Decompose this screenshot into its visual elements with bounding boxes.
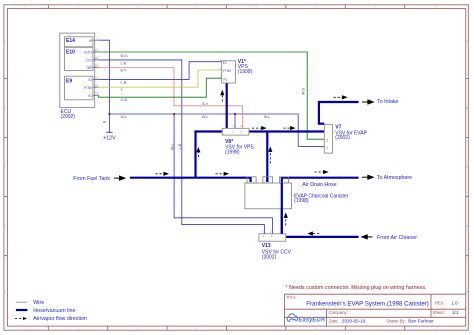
svg-text:11: 11 — [95, 76, 98, 80]
svg-text:W-G: W-G — [302, 88, 306, 96]
svg-text:TITLE:: TITLE: — [286, 296, 297, 300]
svg-text:(2002): (2002) — [262, 255, 277, 261]
svg-text:E9: E9 — [66, 79, 72, 85]
svg-text:Sheet:: Sheet: — [433, 310, 445, 315]
svg-text:1: 1 — [326, 146, 328, 150]
svg-text:W-L: W-L — [121, 115, 128, 119]
svg-text:1/1: 1/1 — [452, 310, 459, 315]
svg-text:(1998): (1998) — [225, 150, 240, 156]
svg-text:PTNK: PTNK — [223, 69, 232, 73]
svg-text:V7: V7 — [335, 124, 341, 130]
svg-text:E: E — [466, 290, 468, 294]
svg-text:2: 2 — [326, 139, 328, 143]
svg-text:+B: +B — [88, 39, 92, 43]
svg-text:Frankenstein's EVAP System (19: Frankenstein's EVAP System (1998 Caniste… — [306, 300, 429, 307]
svg-text:B-Y: B-Y — [121, 69, 128, 73]
svg-text:Hose/vacuum line: Hose/vacuum line — [33, 308, 75, 314]
svg-text:Drawn By:: Drawn By: — [387, 319, 406, 324]
svg-text:A: A — [466, 39, 468, 43]
svg-text:REV:: REV: — [435, 301, 445, 306]
svg-text:VC: VC — [223, 78, 228, 82]
svg-text:Ben Farhner: Ben Farhner — [408, 319, 434, 324]
svg-text:25: 25 — [95, 92, 99, 96]
svg-text:(2002): (2002) — [61, 114, 76, 120]
svg-text:20: 20 — [95, 64, 99, 68]
svg-text:A: A — [4, 39, 6, 43]
svg-text:E2: E2 — [223, 61, 227, 65]
svg-text:E2: E2 — [88, 78, 92, 82]
svg-text:To Intake: To Intake — [377, 99, 399, 105]
svg-text:L-B: L-B — [178, 143, 182, 149]
svg-text:Air Drain Hose: Air Drain Hose — [302, 182, 336, 188]
svg-text:W-L: W-L — [264, 115, 271, 119]
svg-text:14: 14 — [95, 48, 99, 52]
svg-text:E14: E14 — [66, 38, 75, 44]
svg-text:W-G: W-G — [121, 54, 129, 58]
svg-text:E10: E10 — [66, 50, 75, 56]
svg-text:W-L: W-L — [202, 115, 209, 119]
svg-text:V13: V13 — [262, 243, 271, 249]
svg-text:From Air Cleaner: From Air Cleaner — [377, 235, 417, 241]
svg-text:To Atmosphere: To Atmosphere — [377, 175, 412, 181]
svg-text:Air/vapor flow direction: Air/vapor flow direction — [33, 316, 87, 322]
svg-text:(2002): (2002) — [335, 135, 350, 141]
svg-text:B: B — [4, 106, 6, 110]
svg-text:Date:: Date: — [329, 319, 339, 324]
svg-text:(1998): (1998) — [294, 198, 309, 204]
svg-text:19: 19 — [95, 56, 99, 60]
svg-text:VC: VC — [88, 94, 93, 98]
svg-text:CCV: CCV — [86, 59, 94, 63]
svg-text:From Fuel Tank: From Fuel Tank — [73, 176, 110, 182]
svg-text:EVP1: EVP1 — [84, 51, 92, 55]
svg-text:L-B: L-B — [121, 80, 127, 84]
svg-text:+12V: +12V — [103, 135, 116, 141]
svg-text:G-B: G-B — [121, 98, 128, 102]
svg-text:TBP: TBP — [86, 66, 92, 70]
svg-text:EasyEDA: EasyEDA — [298, 318, 325, 324]
svg-text:PTNK: PTNK — [84, 86, 93, 90]
svg-text:Wire: Wire — [33, 300, 44, 306]
svg-text:B: B — [466, 106, 468, 110]
svg-text:W-L: W-L — [170, 143, 174, 150]
svg-text:24: 24 — [95, 83, 99, 87]
svg-text:Company:: Company: — [329, 310, 348, 315]
svg-text:B-Y: B-Y — [202, 102, 209, 106]
svg-text:1.0: 1.0 — [451, 301, 458, 306]
svg-text:E: E — [4, 290, 6, 294]
svg-text:* Needs custom connector. Miss: * Needs custom connector. Missing plug o… — [285, 285, 426, 291]
svg-text:2020-05-19: 2020-05-19 — [342, 319, 366, 324]
svg-text:L-B: L-B — [121, 61, 127, 65]
svg-text:(1999): (1999) — [238, 69, 253, 75]
